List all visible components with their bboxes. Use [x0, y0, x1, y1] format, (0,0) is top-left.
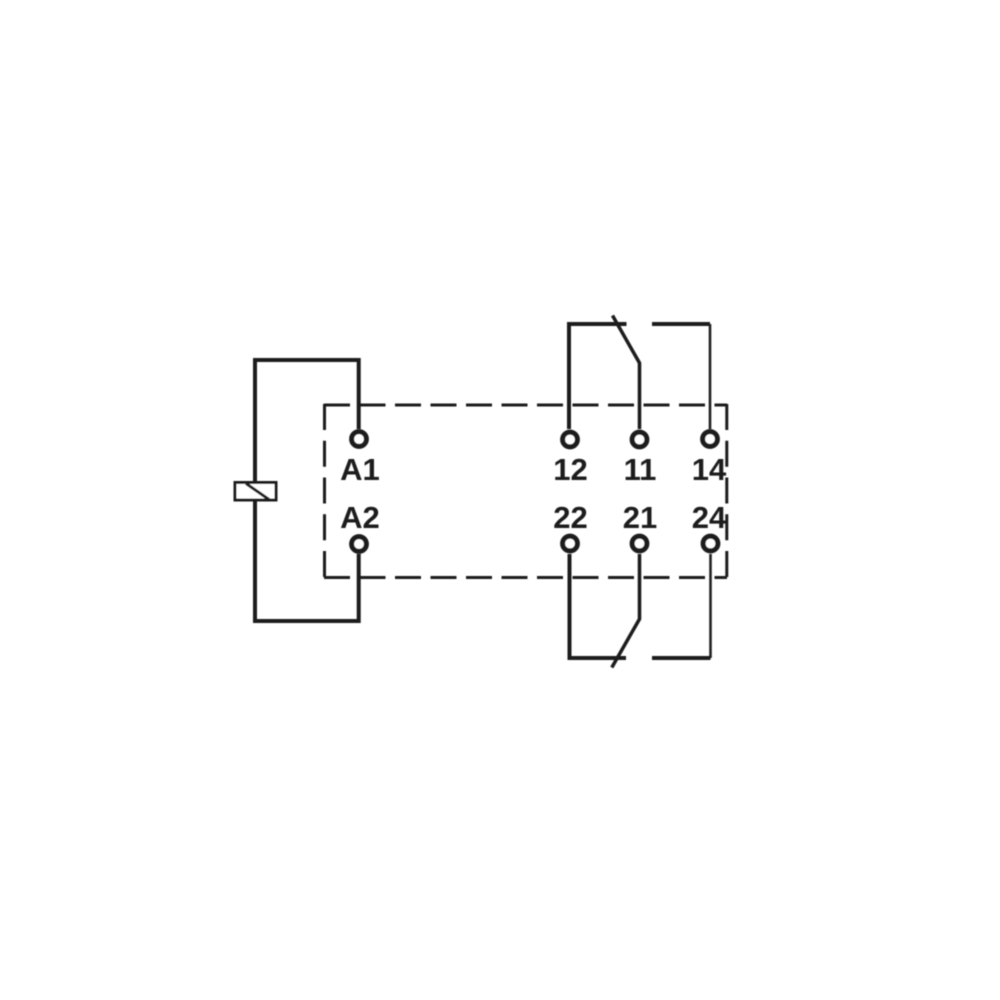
svg-text:A2: A2: [340, 500, 380, 535]
svg-text:21: 21: [623, 500, 657, 535]
svg-text:24: 24: [692, 500, 727, 535]
svg-text:11: 11: [624, 452, 657, 487]
svg-text:A1: A1: [340, 452, 380, 487]
svg-text:14: 14: [692, 452, 727, 487]
svg-text:22: 22: [553, 500, 587, 535]
svg-text:12: 12: [553, 452, 587, 487]
